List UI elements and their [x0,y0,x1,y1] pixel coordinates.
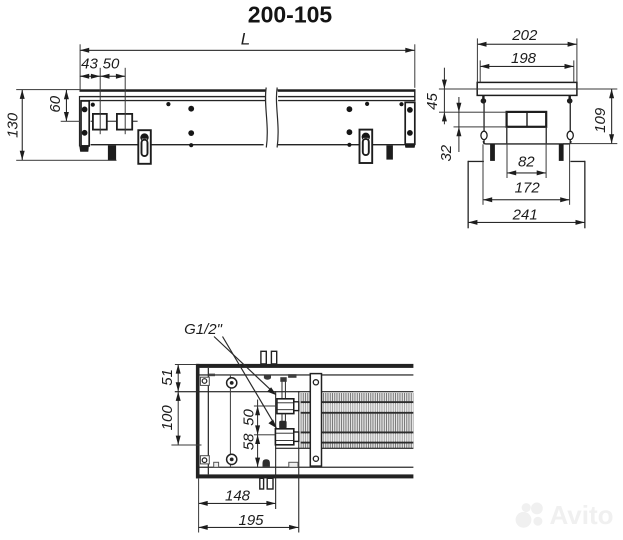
plan view: pipe1 body light band [301,404,414,412]
plan view: heat exchanger bottom line [275,448,413,449]
svg-text:58: 58 [241,433,258,450]
svg-text:50: 50 [241,409,258,426]
dimension 195: line, arrows, label [198,527,298,528]
side view: left foot block [108,145,116,160]
plan view: seam tab on inner top line [209,374,215,377]
dimension 82: line, arrows, extensions, label [507,172,546,173]
plan view: heat exchanger left edge + 148 extension [275,391,276,509]
dimension 60: vertical line, arrows, extension, label [66,90,67,121]
cross-section: trench box left wall [468,161,469,229]
svg-text:195: 195 [238,512,264,529]
plan view: inter-fitting pipe and nut [282,414,283,429]
cross-section: heat exchanger side extensions [506,127,507,144]
plan view: pipe risers above fitting1 [282,378,283,399]
cross-section: tub left wall [483,100,484,144]
dimension L: line, arrows, extension lines, label [80,50,415,51]
svg-text:51: 51 [159,369,176,386]
dimension 58: line, arrows, extension, label [257,435,258,467]
side view: body bottom line seg3 [278,144,359,145]
dimension 32: line, arrows, label [458,97,459,152]
plan view: bottom pipe stubs [260,478,264,489]
dimension 241: line, arrows, label [468,222,585,223]
plan view: pipe1 top edge [301,401,414,403]
plan view: outer frame bottom edge [196,474,413,478]
cross-section: left leg [490,144,495,161]
plan view: fitting1 union nut [277,399,294,414]
side view: left end plate foot [79,146,89,152]
plan view: top pipe stubs [261,351,266,364]
plan view: fin pack [301,393,414,448]
side view: left mounting bracket [138,130,151,164]
plan view: outer frame left edge [196,364,200,479]
side view: right mounting bracket [360,130,373,163]
cross-section: tub bottom [483,141,571,144]
dimension 51: line, arrows, extensions, label [178,364,179,391]
svg-text:43: 43 [81,55,98,72]
dimension 100: line, arrows, extension, label [178,392,179,445]
plan view: washer screw bottom [227,454,237,464]
svg-text:82: 82 [518,154,535,171]
side view: fitting square 2 [117,114,132,130]
side view: fitting square 1 [93,114,107,130]
svg-text:241: 241 [512,206,538,223]
svg-text:100: 100 [159,405,176,431]
cross-section: tub wall clips [481,131,487,139]
svg-text:Avito: Avito [550,500,614,530]
cross-section: right leg [559,144,564,161]
svg-text:109: 109 [592,107,609,133]
cross-section: trench box right wall [584,161,585,229]
extension line heat exchanger bottom [454,126,507,127]
side view: break lines S-curves with white gap [265,88,278,148]
svg-text:50: 50 [103,55,120,72]
cross-section: tub right wall [570,100,571,144]
plan view: fitting2 union nut [275,429,293,445]
cross-section: grille frame box [477,82,577,95]
cross-section: heat exchanger box [507,112,547,127]
svg-text:172: 172 [515,180,541,197]
dimension 148: line, arrows, extension, label [198,503,275,504]
side view: grille right end edge [414,89,415,101]
side view: body bottom line seg4 [373,144,405,145]
side view: left end plate [81,101,89,146]
plan view: pipe2 top edge [301,432,414,434]
svg-text:32: 32 [438,144,455,161]
svg-text:148: 148 [225,487,251,504]
plan view: washer screw top [227,378,237,388]
plan view: pipe2 bottom edge [301,442,414,444]
svg-text:45: 45 [424,93,441,110]
dimension 202: line, arrows, extensions, label [477,44,577,45]
cross-section: left hanging clip [482,95,484,99]
side view: centerline through square2 [125,68,126,134]
cross-section: trench box top edges [468,161,484,162]
plan view: heat exchanger right end plate + 195 extension [298,391,299,532]
svg-text:L: L [241,30,250,49]
side view: body bottom line seg2 [151,144,263,145]
cross-section: grille surface long thin line [439,89,617,90]
Avito watermark: four circles [516,512,532,528]
side view: grille top bar [80,89,416,92]
dimension 45: line, arrows, label [444,68,445,125]
svg-text:198: 198 [511,50,537,67]
dimension 43-50: line, arrows, labels [80,76,125,77]
plan view: casing seam line [230,376,231,467]
cross-section: heat exchanger divider [526,112,527,127]
side view: body left outer edge [79,96,80,146]
svg-text:130: 130 [5,112,22,138]
side view: body bottom line seg1 [91,144,138,145]
side view: grille lower line [81,100,416,101]
plan view: corner plate bottom-left [200,456,209,464]
side view: right foot block [386,145,393,159]
dimension 109: line, arrows, extension, label [611,89,612,144]
plan view: bottom bracket foot bump [263,459,270,467]
plan view: inner wall top [200,374,414,375]
dimension 198: line, arrows, extensions, label [480,66,574,67]
dimension 50 (pipe spacing): line, arrows, extensions, label [257,400,258,435]
plan view: outer frame top edge [196,364,413,368]
side view: pipe axis line through fittings [91,121,138,122]
dimension 172: line, arrows, extensions, label [483,199,570,200]
plan view: pipe1 bottom edge [301,412,414,414]
plan view: bottom edge pads [214,462,219,467]
plan view: inner wall left [208,368,209,474]
side view: centerline through square1 [100,68,101,134]
extension line heat exchanger top [439,112,507,113]
cross-section: right hanging clip [569,95,571,99]
side view: right end plate [405,102,415,144]
svg-text:G1/2": G1/2" [184,321,223,338]
plan view: top pipe collar tab [264,375,271,379]
plan view: inner wall bottom [200,467,414,468]
plan view: pipe2 body light band [301,434,414,442]
side view: right end plate foot [405,144,416,148]
svg-text:200-105: 200-105 [248,2,333,28]
side view: screw hole dots [82,107,88,113]
side view: grille mid line [80,96,416,97]
dimension 130: vertical line, arrows, extensions, label [22,90,23,161]
svg-text:60: 60 [47,95,64,112]
plan view: corner plate top-left [200,377,209,385]
svg-text:202: 202 [511,27,538,44]
plan view: heat exchanger top line / extension [175,391,414,392]
plan view: mounting bracket strip [310,374,321,467]
